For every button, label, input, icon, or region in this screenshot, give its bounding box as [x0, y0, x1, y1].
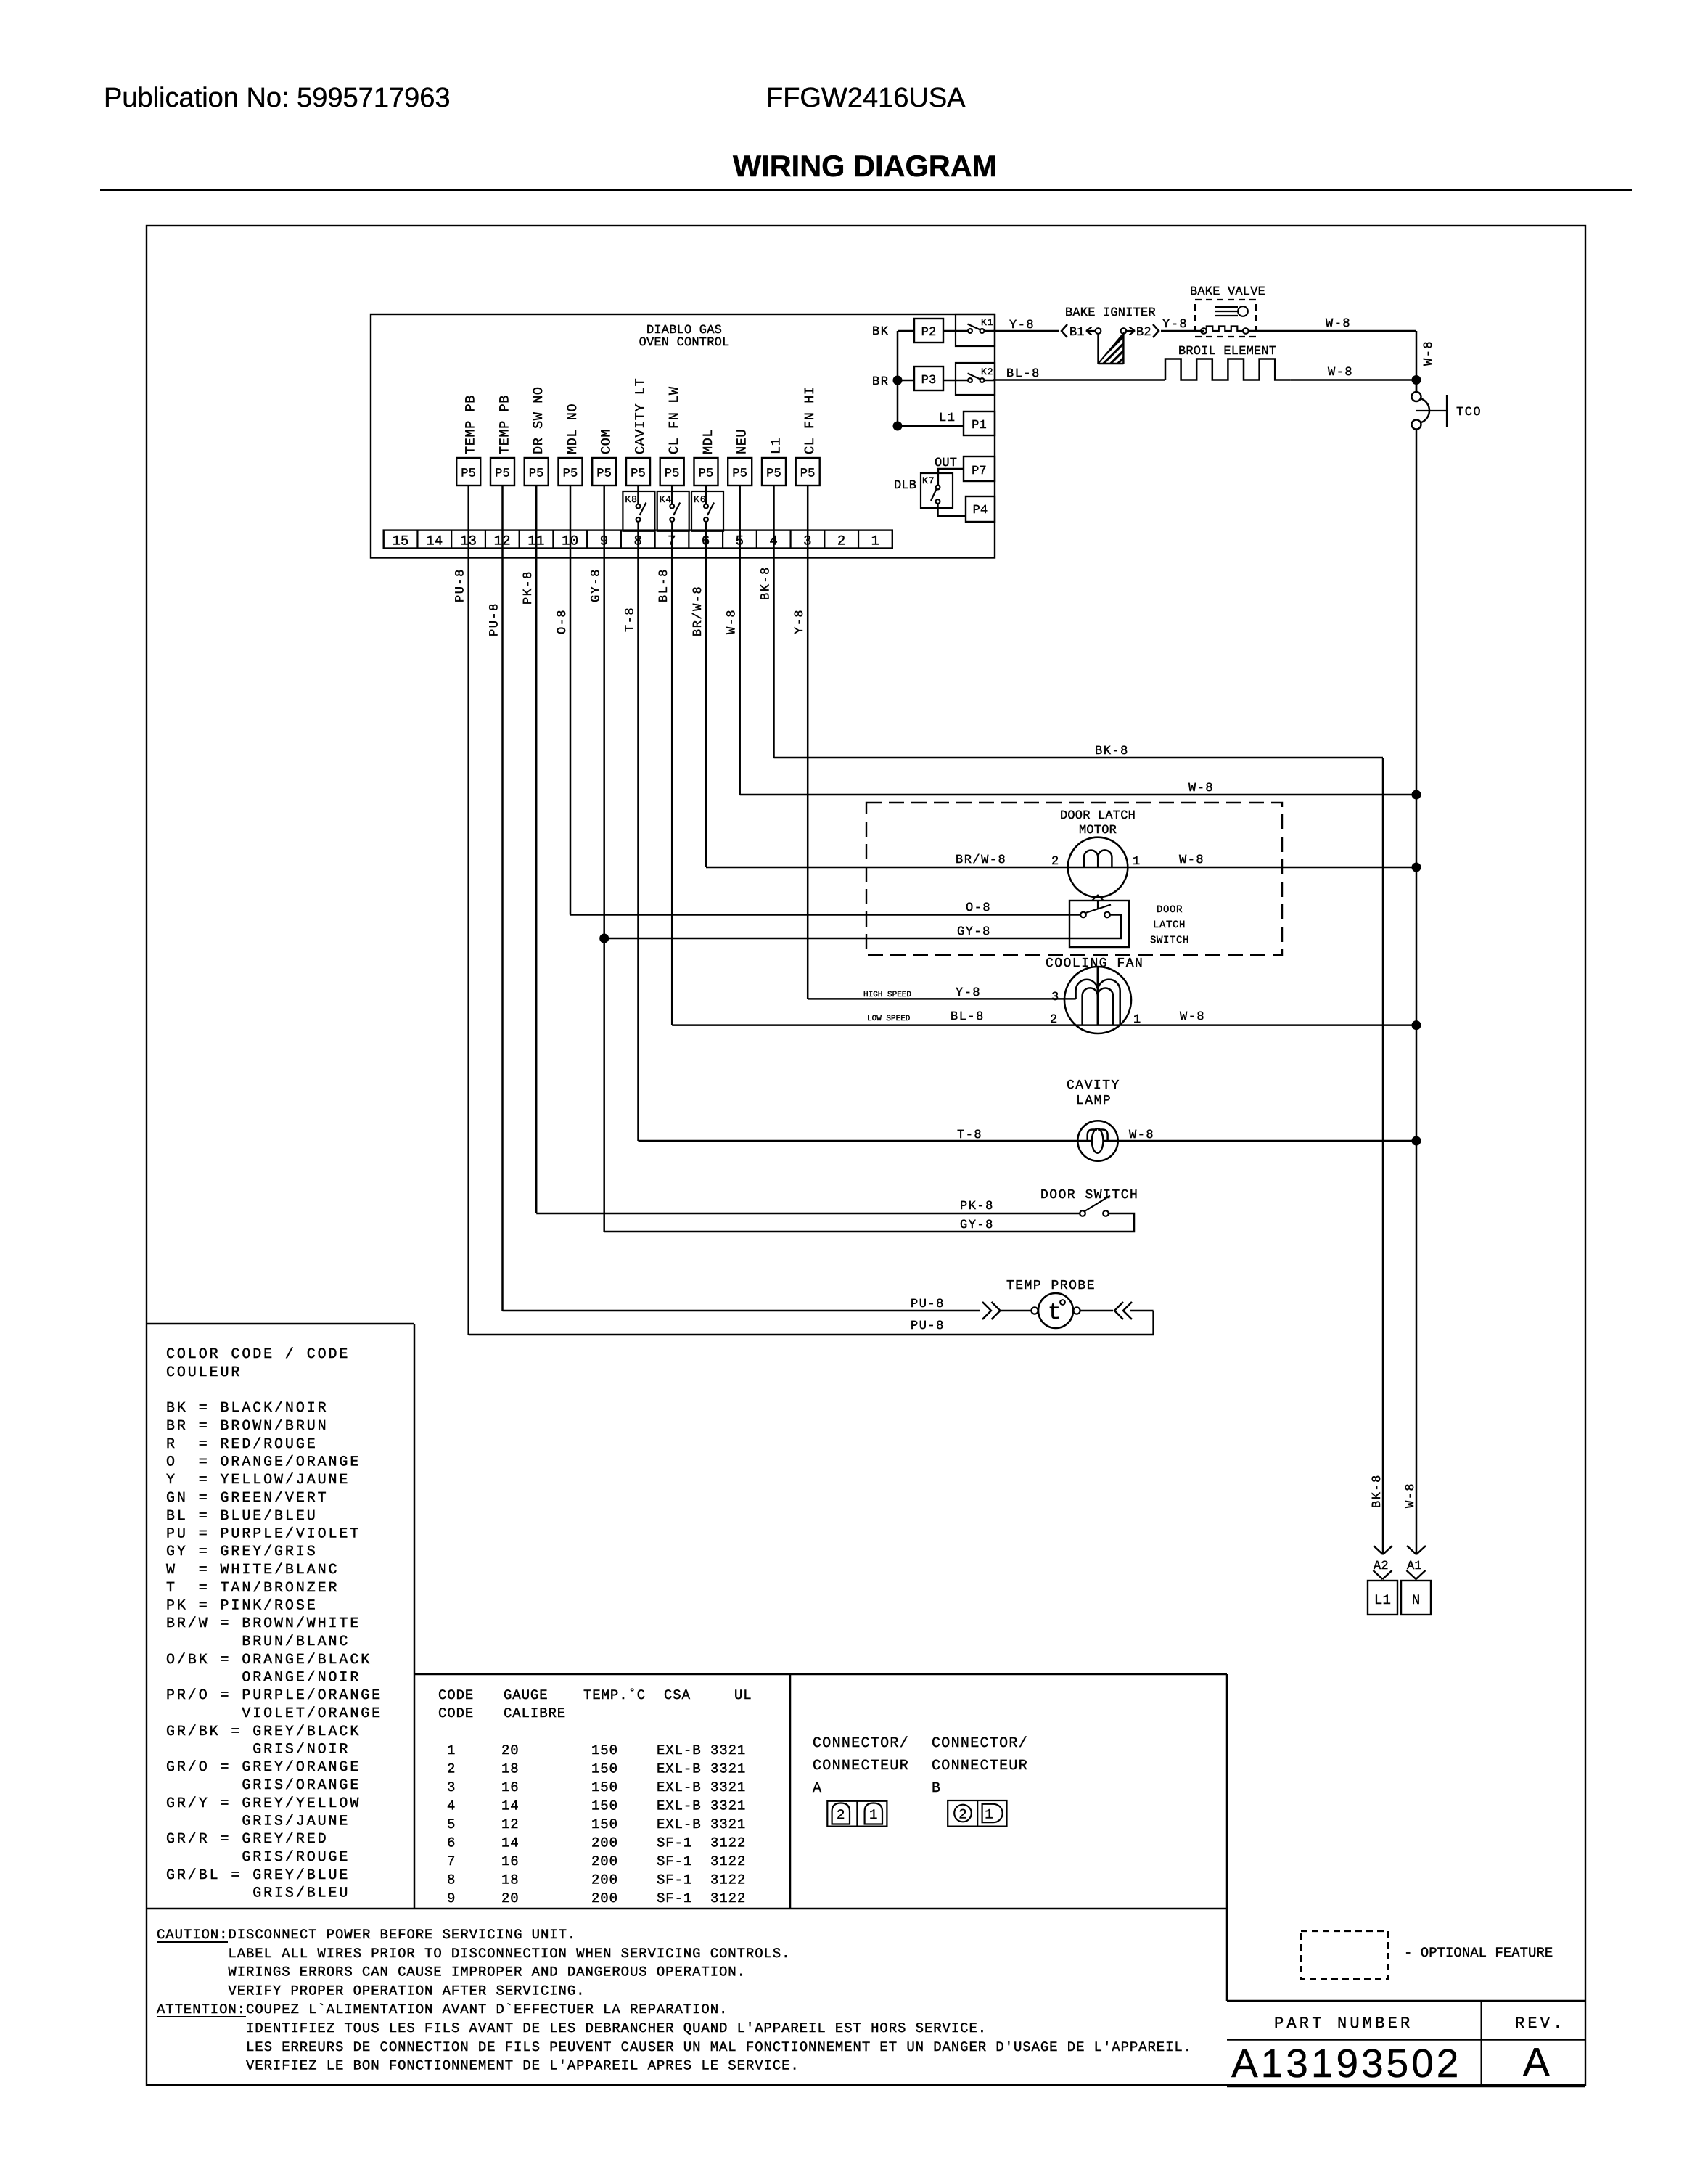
wire W-8 valve to corner [1249, 330, 1416, 332]
wire P5 to terminal strip [773, 486, 775, 530]
svg-text:3122: 3122 [710, 1890, 746, 1906]
svg-text:L1: L1 [939, 411, 956, 425]
svg-text:2: 2 [958, 1807, 967, 1823]
svg-text:PU = PURPLE/VIOLET: PU = PURPLE/VIOLET [166, 1526, 361, 1543]
svg-text:SF-1: SF-1 [657, 1835, 692, 1851]
wire Y-8 to bake valve [1161, 330, 1204, 332]
svg-text:BR/W-8: BR/W-8 [956, 853, 1006, 867]
svg-text:150: 150 [591, 1816, 618, 1832]
wire P5 to terminal strip [807, 486, 809, 530]
connector P2 [914, 319, 943, 343]
wire PU-8 return loop [469, 1311, 1154, 1335]
svg-text:O = ORANGE/ORANGE: O = ORANGE/ORANGE [166, 1454, 361, 1471]
wire from pin 3 [807, 530, 809, 999]
svg-text:Y = YELLOW/JAUNE: Y = YELLOW/JAUNE [166, 1472, 350, 1488]
svg-text:18: 18 [501, 1761, 520, 1777]
svg-text:20: 20 [501, 1890, 520, 1906]
wire W-8 broil to junction [1291, 379, 1416, 381]
junction dot broil/W-8 [1412, 375, 1421, 385]
svg-text:16: 16 [501, 1853, 520, 1869]
svg-text:W-8: W-8 [1404, 1483, 1418, 1508]
svg-text:EXL-B: EXL-B [657, 1761, 702, 1777]
motor linkage [1092, 896, 1104, 901]
junction dot W-8 [1412, 790, 1421, 800]
svg-text:A: A [813, 1780, 822, 1797]
svg-text:K8: K8 [625, 494, 637, 505]
connector P3 [914, 366, 943, 390]
svg-text:Y-8: Y-8 [956, 986, 981, 1000]
svg-text:UL: UL [734, 1687, 752, 1703]
wire BR/W-8 to motor [706, 867, 1416, 869]
svg-text:K4: K4 [660, 494, 672, 505]
svg-text:A2: A2 [1374, 1560, 1389, 1573]
svg-text:GR/O = GREY/ORANGE: GR/O = GREY/ORANGE [166, 1759, 361, 1776]
svg-text:EXL-B: EXL-B [657, 1798, 702, 1814]
svg-text:W-8: W-8 [726, 609, 739, 634]
terminal L1 [1368, 1581, 1397, 1615]
svg-text:P4: P4 [973, 504, 988, 517]
svg-text:CONNECTEUR: CONNECTEUR [813, 1758, 909, 1774]
svg-text:BAKE IGNITER: BAKE IGNITER [1065, 306, 1156, 320]
svg-text:EXL-B: EXL-B [657, 1779, 702, 1795]
svg-text:14: 14 [501, 1835, 520, 1851]
svg-text:BR/W = BROWN/WHITE: BR/W = BROWN/WHITE [166, 1615, 361, 1632]
wire W-8 vertical main [1416, 430, 1418, 1555]
wire from pin 4 [773, 530, 775, 758]
svg-text:PU-8: PU-8 [454, 568, 468, 602]
svg-text:MOTOR: MOTOR [1079, 824, 1117, 837]
svg-text:W-8: W-8 [1129, 1128, 1154, 1142]
svg-text:K2: K2 [981, 366, 993, 377]
connector P5 pin 11 [525, 458, 549, 486]
wire W-8 vertical top [1416, 331, 1418, 392]
svg-text:3122: 3122 [710, 1853, 746, 1869]
door latch dashed enclosure [866, 803, 1282, 955]
svg-text:3: 3 [1051, 991, 1059, 1004]
svg-text:REV.: REV. [1515, 2015, 1566, 2033]
wire from pin 10 [570, 530, 572, 915]
title underline [100, 189, 1632, 191]
svg-text:CONNECTOR/: CONNECTOR/ [932, 1735, 1028, 1752]
wire Y-8 high speed [808, 998, 1075, 1000]
svg-text:CSA: CSA [664, 1687, 691, 1703]
svg-text:BR/W-8: BR/W-8 [691, 586, 705, 636]
svg-text:DLB: DLB [894, 479, 916, 493]
valve solenoid coil [1201, 328, 1207, 334]
svg-text:IDENTIFIEZ TOUS LES FILS AVANT: IDENTIFIEZ TOUS LES FILS AVANT DE LES DE… [246, 2020, 987, 2036]
wire W-8 horizontal [740, 794, 1416, 796]
junction dot lamp W-8 [1412, 1136, 1421, 1146]
svg-text:MDL NO: MDL NO [565, 403, 580, 454]
svg-text:LES ERREURS DE CONNECTION DE F: LES ERREURS DE CONNECTION DE FILS PEUVEN… [246, 2039, 1192, 2055]
svg-text:L1: L1 [769, 438, 784, 454]
wire from pin 13 [467, 530, 469, 1335]
svg-text:BK-8: BK-8 [1371, 1474, 1384, 1508]
svg-text:14: 14 [426, 533, 443, 549]
svg-text:PK-8: PK-8 [960, 1200, 994, 1213]
svg-text:GRIS/BLEU: GRIS/BLEU [166, 1885, 350, 1902]
svg-text:P5: P5 [699, 467, 714, 481]
connector P1 [964, 411, 995, 435]
svg-text:T-8: T-8 [624, 607, 638, 632]
svg-text:20: 20 [501, 1742, 520, 1758]
wire from pin 11 [535, 530, 538, 1213]
svg-text:P5: P5 [665, 467, 680, 481]
door latch motor M1 [1068, 837, 1128, 898]
optional feature dashed box [1301, 1931, 1388, 1979]
svg-text:2: 2 [837, 1807, 845, 1823]
svg-text:W = WHITE/BLANC: W = WHITE/BLANC [166, 1562, 339, 1578]
svg-text:150: 150 [591, 1742, 618, 1758]
wire K7 to P4 [938, 504, 966, 516]
connector A symbol [827, 1801, 887, 1827]
svg-text:LOW SPEED: LOW SPEED [867, 1015, 911, 1023]
svg-text:W-8: W-8 [1179, 853, 1204, 867]
svg-text:GY-8: GY-8 [590, 568, 604, 602]
wire from pin 7 [671, 530, 673, 1025]
connector P5 pin 3 [796, 458, 820, 486]
svg-text:BL-8: BL-8 [951, 1010, 985, 1024]
svg-text:TEMP PB: TEMP PB [464, 395, 479, 454]
svg-text:N: N [1412, 1592, 1421, 1608]
relay contact K2 [956, 363, 995, 395]
right panel divider [1226, 1674, 1228, 2001]
chevron into N [1407, 1570, 1426, 1579]
terminal N [1401, 1581, 1431, 1615]
svg-text:TEMP.˚C: TEMP.˚C [583, 1687, 646, 1703]
temp probe RT1 [1031, 1307, 1038, 1314]
svg-text:3: 3 [447, 1779, 456, 1795]
outer border frame [147, 226, 1585, 2085]
svg-text:18: 18 [501, 1872, 520, 1888]
svg-text:LABEL ALL WIRES PRIOR TO DISCO: LABEL ALL WIRES PRIOR TO DISCONNECTION W… [228, 1946, 790, 1962]
svg-text:CODE: CODE [438, 1705, 474, 1721]
svg-text:5: 5 [447, 1816, 456, 1832]
oven control U1 box [371, 314, 995, 558]
svg-text:VERIFY PROPER OPERATION AFTER: VERIFY PROPER OPERATION AFTER SERVICING. [228, 1983, 585, 1999]
svg-text:P5: P5 [800, 467, 816, 481]
svg-text:LATCH: LATCH [1153, 919, 1186, 931]
connector P5 pin 4 [762, 458, 786, 486]
arrow BK-8 end [1374, 1546, 1392, 1554]
svg-text:12: 12 [501, 1816, 520, 1832]
connector P5 pin 7 [660, 458, 684, 486]
wire from pin 9 [603, 530, 605, 1232]
svg-text:EXL-B: EXL-B [657, 1742, 702, 1758]
svg-text:GR/BK = GREY/BLACK: GR/BK = GREY/BLACK [166, 1724, 361, 1740]
svg-text:4: 4 [447, 1798, 456, 1814]
svg-text:1: 1 [1133, 855, 1140, 869]
svg-text:BL = BLUE/BLEU: BL = BLUE/BLEU [166, 1508, 318, 1525]
wire BK to P2 [898, 330, 914, 332]
svg-text:BROIL ELEMENT: BROIL ELEMENT [1178, 345, 1276, 359]
wire from pin 5 [739, 530, 741, 795]
svg-text:150: 150 [591, 1779, 618, 1795]
svg-text:PU-8: PU-8 [911, 1319, 945, 1333]
svg-text:GRIS/JAUNE: GRIS/JAUNE [166, 1814, 350, 1830]
svg-text:GR/BL = GREY/BLUE: GR/BL = GREY/BLUE [166, 1867, 350, 1884]
svg-text:T = TAN/BRONZER: T = TAN/BRONZER [166, 1580, 339, 1597]
svg-text:BAKE VALVE: BAKE VALVE [1190, 285, 1265, 299]
wire P5 to terminal strip [739, 486, 741, 530]
svg-text:SF-1: SF-1 [657, 1872, 692, 1888]
svg-text:FFGW2416USA: FFGW2416USA [766, 83, 966, 113]
valve flow symbol [1215, 306, 1238, 308]
svg-text:GY = GREY/GRIS: GY = GREY/GRIS [166, 1544, 318, 1560]
svg-text:BK-8: BK-8 [1095, 745, 1129, 758]
connector P7 [964, 456, 995, 481]
svg-text:CL FN LW: CL FN LW [667, 386, 682, 454]
svg-text:DR SW NO: DR SW NO [531, 386, 546, 454]
svg-text:BR: BR [872, 375, 889, 389]
svg-text:TCO: TCO [1456, 406, 1482, 419]
svg-text:3321: 3321 [710, 1779, 746, 1795]
wire BK-8 horizontal [774, 757, 1384, 759]
svg-text:BL-8: BL-8 [657, 568, 671, 602]
svg-text:BRUN/BLANC: BRUN/BLANC [166, 1634, 350, 1650]
connector P5 pin 8 [626, 458, 650, 486]
svg-text:6: 6 [447, 1835, 456, 1851]
connector P5 pin 12 [490, 458, 514, 486]
wire P5 to terminal strip [501, 486, 504, 530]
connector P5 pin 6 [694, 458, 718, 486]
svg-text:WIRING DIAGRAM: WIRING DIAGRAM [733, 149, 997, 183]
junction dot BR [893, 376, 903, 385]
svg-text:BR = BROWN/BRUN: BR = BROWN/BRUN [166, 1418, 329, 1435]
svg-text:PR/O = PURPLE/ORANGE: PR/O = PURPLE/ORANGE [166, 1687, 382, 1704]
svg-text:CL FN HI: CL FN HI [802, 386, 818, 454]
svg-text:P5: P5 [766, 467, 781, 481]
svg-text:GRIS/ROUGE: GRIS/ROUGE [166, 1849, 350, 1866]
svg-text:Y-8: Y-8 [793, 609, 807, 634]
relay contact K6 [691, 491, 723, 531]
caution separator [147, 1908, 1227, 1910]
svg-text:3321: 3321 [710, 1816, 746, 1832]
svg-text:GAUGE: GAUGE [504, 1687, 549, 1703]
svg-text:Y-8: Y-8 [1009, 319, 1035, 332]
svg-text:DOOR LATCH: DOOR LATCH [1060, 809, 1136, 823]
svg-text:16: 16 [501, 1779, 520, 1795]
svg-text:P7: P7 [972, 464, 987, 478]
arrow out of igniter B2 [1121, 328, 1127, 334]
svg-text:R = RED/ROUGE: R = RED/ROUGE [166, 1436, 318, 1453]
cavity lamp DS1 [1077, 1121, 1117, 1160]
svg-text:P5: P5 [495, 467, 510, 481]
svg-text:ATTENTION:COUPEZ L`ALIMENTATIO: ATTENTION:COUPEZ L`ALIMENTATION AVANT D`… [157, 2002, 728, 2017]
terminal strip 15..1 [384, 530, 892, 549]
svg-text:COOLING FAN: COOLING FAN [1046, 956, 1144, 971]
junction dot fan W-8 [1412, 1020, 1421, 1030]
wire PU-8 to probe [503, 1310, 980, 1312]
svg-text:COM: COM [599, 429, 615, 454]
probe plug chevrons left [982, 1302, 991, 1319]
connector B symbol [948, 1800, 1006, 1827]
junction dot motor W-8 [1412, 863, 1421, 872]
svg-text:DOOR: DOOR [1157, 904, 1183, 916]
wire from pin 6 [705, 530, 707, 867]
svg-text:CAVITY LT: CAVITY LT [633, 378, 649, 454]
svg-text:GRIS/ORANGE: GRIS/ORANGE [166, 1777, 361, 1794]
svg-text:W-8: W-8 [1326, 317, 1351, 331]
svg-text:2: 2 [1050, 1013, 1057, 1027]
wire BK/BR/L1 vertical [897, 331, 899, 426]
svg-text:7: 7 [447, 1853, 456, 1869]
svg-text:TEMP PROBE: TEMP PROBE [1006, 1279, 1096, 1293]
wire P7 to K7 [938, 469, 964, 473]
junction dot GY-8 [599, 934, 609, 943]
svg-text:CAVITY: CAVITY [1067, 1078, 1120, 1093]
svg-text:2: 2 [837, 533, 846, 549]
wire P5 to terminal strip [705, 486, 707, 504]
svg-text:CALIBRE: CALIBRE [504, 1705, 566, 1721]
plug B1 chevron [1062, 324, 1067, 337]
svg-text:P5: P5 [732, 467, 747, 481]
svg-text:K7: K7 [922, 475, 935, 486]
wire BK-8 vertical right [1382, 758, 1384, 1554]
svg-text:W-8: W-8 [1188, 782, 1214, 795]
svg-text:P3: P3 [921, 374, 937, 388]
svg-text:W-8: W-8 [1180, 1010, 1205, 1024]
svg-text:14: 14 [501, 1798, 520, 1814]
junction dot L1 tap [893, 422, 903, 431]
svg-text:P5: P5 [461, 467, 476, 481]
svg-text:A13193502: A13193502 [1231, 2041, 1461, 2086]
svg-text:P1: P1 [972, 419, 987, 433]
svg-text:L1: L1 [1374, 1592, 1391, 1608]
svg-text:3122: 3122 [710, 1835, 746, 1851]
svg-text:W-8: W-8 [1422, 340, 1436, 366]
svg-text:BL-8: BL-8 [1006, 367, 1040, 381]
chevron into L1 [1374, 1570, 1392, 1579]
svg-text:3122: 3122 [710, 1872, 746, 1888]
wire P5 to terminal strip [467, 486, 469, 530]
svg-text:P5: P5 [529, 467, 544, 481]
connector P5 pin 13 [456, 458, 480, 486]
svg-text:VIOLET/ORANGE: VIOLET/ORANGE [166, 1705, 382, 1722]
svg-text:200: 200 [591, 1890, 618, 1906]
svg-text:150: 150 [591, 1798, 618, 1814]
svg-text:9: 9 [447, 1890, 456, 1906]
wire from pin 8 [637, 530, 639, 1141]
wire T-8 to lamp [639, 1140, 1417, 1142]
svg-text:A: A [1523, 2039, 1553, 2084]
svg-text:1: 1 [985, 1807, 993, 1823]
svg-text:PK-8: PK-8 [522, 570, 535, 605]
svg-text:2: 2 [447, 1761, 456, 1777]
svg-text:VERIFIEZ LE BON FONCTIONNEMENT: VERIFIEZ LE BON FONCTIONNEMENT DE L'APPA… [246, 2058, 800, 2074]
svg-text:SF-1: SF-1 [657, 1853, 692, 1869]
svg-text:LAMP: LAMP [1076, 1094, 1112, 1108]
svg-text:T-8: T-8 [957, 1128, 982, 1142]
wire BR to P3 [898, 380, 914, 382]
svg-text:ORANGE/NOIR: ORANGE/NOIR [166, 1670, 361, 1687]
svg-text:A1: A1 [1407, 1560, 1422, 1573]
wire from pin 12 [501, 530, 504, 1311]
svg-text:P5: P5 [596, 467, 612, 481]
svg-text:BK: BK [872, 325, 889, 339]
wire BL-8 from K2 [993, 379, 1165, 381]
wire BL-8 low speed [672, 1024, 1416, 1026]
svg-text:3321: 3321 [710, 1798, 746, 1814]
svg-text:B2: B2 [1136, 326, 1151, 340]
svg-text:GRIS/NOIR: GRIS/NOIR [166, 1742, 350, 1758]
svg-text:OVEN CONTROL: OVEN CONTROL [639, 336, 730, 350]
svg-text:GN = GREEN/VERT: GN = GREEN/VERT [166, 1490, 329, 1507]
svg-text:2: 2 [1051, 855, 1059, 869]
svg-text:CONNECTEUR: CONNECTEUR [932, 1758, 1028, 1774]
svg-text:PK = PINK/ROSE: PK = PINK/ROSE [166, 1598, 318, 1615]
svg-text:B: B [932, 1780, 941, 1797]
wire P3 to K2 [943, 380, 968, 382]
svg-text:PU-8: PU-8 [488, 602, 502, 636]
svg-text:CODE: CODE [438, 1687, 474, 1703]
wire O-8 to latch switch [570, 914, 1080, 916]
cooling fan motor M2 [1064, 967, 1131, 1033]
svg-text:DOOR SWITCH: DOOR SWITCH [1040, 1188, 1138, 1203]
wire P5 to terminal strip [671, 486, 673, 504]
svg-text:BK = BLACK/NOIR: BK = BLACK/NOIR [166, 1400, 329, 1417]
bake igniter element [1096, 328, 1101, 334]
bake valve V1 dashed box [1195, 300, 1256, 337]
wire P5 to terminal strip [570, 486, 572, 530]
wire P2 to K1 [943, 330, 968, 332]
svg-text:WIRINGS ERRORS CAN CAUSE IMPRO: WIRINGS ERRORS CAN CAUSE IMPROPER AND DA… [228, 1965, 746, 1980]
wire P5 to terminal strip [637, 486, 639, 504]
svg-text:B1: B1 [1069, 326, 1085, 340]
svg-text:BK-8: BK-8 [760, 566, 773, 600]
relay contact K4 [657, 491, 689, 531]
wire Y-8 from K1 [993, 330, 1059, 332]
svg-text:P2: P2 [921, 326, 937, 340]
svg-text:P5: P5 [631, 467, 646, 481]
door switch S2 [1080, 1210, 1085, 1216]
svg-text:Publication No: 5995717963: Publication No: 5995717963 [104, 83, 451, 113]
wire P5 to terminal strip [535, 486, 538, 530]
svg-text:PART NUMBER: PART NUMBER [1274, 2015, 1413, 2033]
door latch switch S1 [1069, 901, 1129, 947]
svg-text:15: 15 [392, 533, 408, 549]
wire PK-8 to door switch [536, 1213, 1080, 1215]
svg-text:K6: K6 [694, 494, 706, 505]
svg-text:3321: 3321 [710, 1742, 746, 1758]
svg-text:W-8: W-8 [1328, 366, 1353, 380]
svg-text:Y-8: Y-8 [1162, 318, 1188, 332]
svg-text:150: 150 [591, 1761, 618, 1777]
arrow W-8 end [1407, 1546, 1426, 1554]
svg-text:8: 8 [447, 1872, 456, 1888]
connector P5 pin 10 [559, 458, 583, 486]
svg-text:CONNECTOR/: CONNECTOR/ [813, 1735, 909, 1752]
svg-text:200: 200 [591, 1872, 618, 1888]
probe plug chevrons right [1114, 1302, 1123, 1319]
TCO thermal cutout [1416, 380, 1418, 393]
svg-text:GY-8: GY-8 [957, 925, 991, 939]
svg-text:COULEUR: COULEUR [166, 1364, 242, 1381]
svg-text:TEMP PB: TEMP PB [498, 395, 513, 454]
svg-text:EXL-B: EXL-B [657, 1816, 702, 1832]
svg-text:t: t [1048, 1300, 1062, 1326]
svg-text:NEU: NEU [735, 429, 750, 454]
arrow into igniter B1 [1086, 327, 1095, 335]
svg-text:O/BK = ORANGE/BLACK: O/BK = ORANGE/BLACK [166, 1652, 371, 1668]
svg-text:1: 1 [871, 533, 880, 549]
svg-text:3321: 3321 [710, 1761, 746, 1777]
wire P5 to terminal strip [603, 486, 605, 530]
svg-text:MDL: MDL [701, 429, 716, 454]
relay contact K7 (DLB) [921, 473, 953, 508]
svg-text:P5: P5 [563, 467, 578, 481]
part number box [1227, 2000, 1585, 2002]
